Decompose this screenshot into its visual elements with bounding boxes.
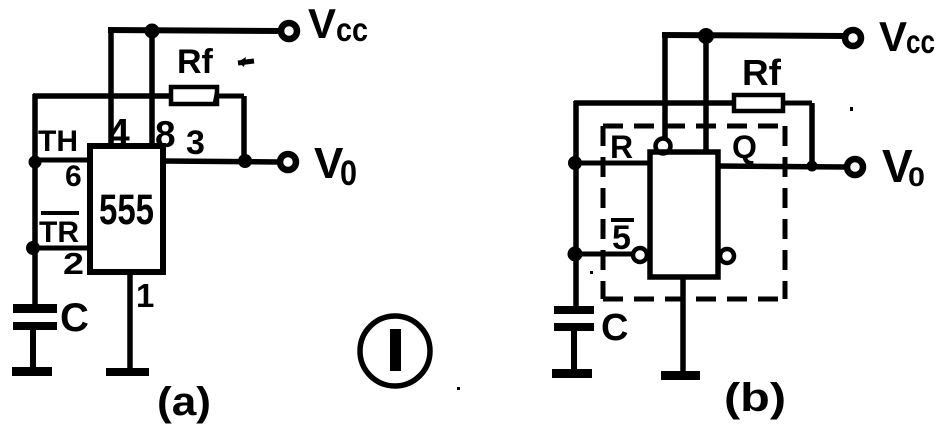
capacitor C (b) top plate	[554, 306, 594, 314]
svg-text:6: 6	[65, 160, 82, 193]
wire pin 1 vertical (a)	[127, 272, 133, 370]
wire TR pin 2 (a)	[33, 246, 90, 251]
arrow mark right of Rf (a)	[238, 57, 254, 67]
node junction dot Vcc (b)	[698, 28, 714, 44]
svg-text:C: C	[60, 296, 89, 340]
wire Vcc top rail (a)	[108, 30, 280, 31]
svg-text:2: 2	[63, 246, 84, 281]
capacitor C (b) bottom plate	[554, 323, 594, 331]
svg-text:(b): (b)	[724, 376, 786, 420]
capacitor C (a) bottom plate	[13, 322, 57, 330]
wire junction vertical into latch (b)	[703, 36, 709, 153]
node junction dot output (b)	[807, 161, 818, 172]
resistor Rf box (a)	[171, 87, 217, 104]
svg-text:5: 5	[612, 219, 631, 257]
wire capacitor to ground (b)	[571, 331, 577, 371]
node junction dot R (b)	[568, 156, 582, 170]
svg-text:1: 1	[136, 277, 154, 314]
label V0 (b)	[882, 140, 925, 192]
wire resistor right to corner (b)	[783, 101, 812, 106]
resistor Rf box (b)	[734, 95, 783, 111]
wire latch bottom vertical (b)	[680, 277, 686, 373]
svg-text:cc: cc	[336, 11, 368, 48]
wire R input (b)	[575, 161, 650, 166]
dashed latch outline box (b)	[603, 126, 785, 299]
wire resistor right to corner (a)	[217, 94, 244, 99]
node junction dot output (a)	[238, 154, 252, 168]
label Vcc (b)	[879, 13, 935, 60]
node junction dot pin8/Vcc (a)	[145, 24, 160, 39]
svg-text:R: R	[610, 129, 633, 165]
label S bar input	[611, 219, 634, 257]
ground bar latch (b)	[661, 371, 700, 380]
wire left rail top horizontal (a)	[33, 93, 171, 99]
svg-text:0: 0	[340, 154, 357, 193]
wire S input (b)	[575, 252, 632, 257]
terminal V0 (a)	[280, 154, 296, 170]
stray ink speck	[850, 107, 853, 111]
inversion bubble bottom right (b)	[720, 249, 734, 263]
svg-text:TH: TH	[38, 125, 78, 158]
label TR with overline	[39, 213, 79, 249]
wire output Q (b)	[718, 166, 845, 167]
inversion bubble top (b)	[656, 139, 671, 154]
IC U1 555 box	[90, 146, 163, 272]
figure number circled 1	[360, 316, 430, 386]
svg-text:Rf: Rf	[742, 52, 782, 93]
wire corner vertical down to output (a)	[241, 96, 247, 161]
capacitor C (a) top plate	[13, 304, 57, 313]
wire capacitor to ground (a)	[30, 330, 36, 370]
wire left rail vertical (a)	[32, 94, 38, 306]
latch box U2 (b)	[650, 152, 718, 277]
wire left rail top horizontal (b)	[574, 100, 735, 106]
terminal Vcc (a)	[281, 23, 297, 39]
label V0 (a)	[314, 139, 357, 193]
svg-text:Rf: Rf	[177, 43, 214, 81]
svg-text:(a): (a)	[157, 380, 211, 424]
svg-text:C: C	[601, 307, 628, 349]
wire pin 4 vertical (a)	[108, 28, 114, 146]
ground bar pin 1 (a)	[106, 368, 149, 376]
inversion bubble S input (b)	[633, 248, 647, 262]
terminal V0 (b)	[847, 159, 863, 175]
svg-text:TR: TR	[39, 216, 79, 249]
ground bar below C (b)	[552, 369, 592, 378]
svg-text:V: V	[308, 0, 336, 47]
stray ink speck 2	[457, 387, 460, 390]
wire corner vertical down to output (b)	[809, 103, 815, 167]
wire pin 8 vertical (a)	[149, 31, 155, 146]
svg-text:V: V	[879, 13, 907, 60]
terminal Vcc (b)	[845, 30, 861, 46]
wire Vcc top rail (b)	[662, 35, 845, 36]
wire output pin 3 (a)	[163, 161, 278, 162]
svg-text:cc: cc	[906, 23, 935, 60]
node junction dot S (b)	[568, 247, 583, 262]
wire left rail vertical (b)	[573, 101, 579, 307]
svg-text:Q: Q	[732, 129, 757, 165]
label Vcc (a)	[308, 0, 368, 48]
stray ink speck 3	[590, 271, 593, 274]
node junction dot TR (a)	[26, 241, 40, 255]
svg-text:0: 0	[908, 162, 925, 192]
svg-text:3: 3	[186, 124, 205, 162]
node junction dot TH (a)	[29, 156, 42, 169]
wire TH pin 6 (a)	[35, 158, 90, 163]
ground bar below C (a)	[12, 367, 52, 376]
svg-text:555: 555	[99, 186, 154, 234]
wire left vertical to R bubble (b)	[662, 33, 668, 140]
